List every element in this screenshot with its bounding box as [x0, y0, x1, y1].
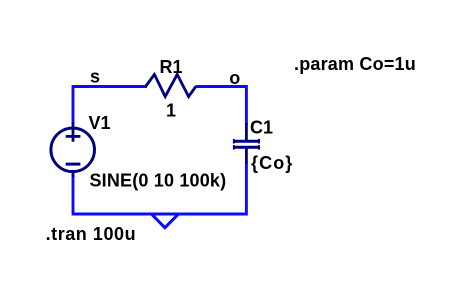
svg-text:s: s: [90, 67, 100, 87]
svg-text:.param Co=1u: .param Co=1u: [294, 54, 416, 74]
svg-text:{Co}: {Co}: [251, 153, 293, 173]
svg-text:1: 1: [166, 101, 176, 121]
svg-text:V1: V1: [89, 113, 111, 133]
svg-text:SINE(0 10 100k): SINE(0 10 100k): [90, 170, 227, 190]
svg-text:o: o: [229, 68, 240, 88]
svg-text:.tran 100u: .tran 100u: [46, 224, 137, 244]
svg-text:R1: R1: [160, 57, 183, 77]
svg-text:C1: C1: [250, 118, 273, 138]
